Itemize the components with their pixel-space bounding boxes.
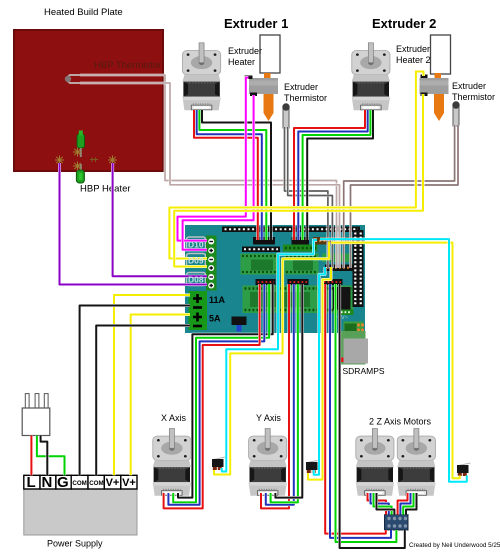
connector D08	[187, 273, 206, 286]
wire mains green	[37, 436, 65, 476]
extruder1 stepper motor	[183, 43, 221, 110]
svg-text:Extruder 1: Extruder 1	[224, 16, 288, 31]
svg-text:Created by Neil Underwood 5/25: Created by Neil Underwood 5/25/2011	[409, 542, 500, 549]
svg-text:Extruder: Extruder	[284, 82, 318, 92]
wire X motor red	[164, 284, 260, 508]
wire Y endstop yellow	[308, 267, 331, 480]
sdramps pin connector on board	[339, 310, 354, 316]
wire Y motor blue	[266, 284, 294, 505]
Y axis stepper motor	[249, 429, 287, 496]
wire Z1 loop green	[374, 493, 392, 515]
X driver header	[256, 279, 276, 285]
wire D08 purple B	[60, 163, 208, 285]
thermistor pin header	[325, 265, 353, 272]
wire X motor black	[178, 284, 273, 498]
svg-text:G: G	[57, 474, 69, 491]
svg-text:Power Supply: Power Supply	[47, 539, 103, 549]
wire Z1 loop blue	[371, 493, 389, 515]
svg-text:V+: V+	[122, 477, 136, 489]
wire Y motor green	[271, 284, 298, 502]
lower driver module Z	[322, 286, 354, 314]
svg-text:11A: 11A	[209, 295, 226, 305]
wire extruder1 thermistor B	[288, 127, 333, 268]
svg-text:Y Axis: Y Axis	[256, 413, 281, 423]
power input terminal block	[189, 291, 208, 330]
E0 motor header	[253, 237, 275, 245]
wire Y endstop cyan	[314, 267, 325, 475]
wire D10 magenta B	[183, 95, 254, 250]
svg-text:Extruder 2: Extruder 2	[372, 16, 436, 31]
wire Z1 loop black	[377, 493, 395, 515]
Z wire combiner block	[385, 515, 409, 531]
E1 motor header	[292, 237, 310, 245]
wire Z motor blue	[330, 284, 391, 538]
wire HBP thermistor B	[80, 83, 340, 268]
wire mains black	[41, 436, 48, 476]
PSU body	[24, 489, 137, 535]
wire D10 magenta A	[178, 78, 249, 241]
green terminal mid	[283, 245, 318, 252]
lower driver modules XY	[243, 286, 320, 314]
HBP heater component	[55, 131, 117, 184]
wire extruder2 motor blue	[298, 110, 367, 240]
wire PSU V+2 yellow	[131, 315, 190, 476]
wire extruder2 thermistor A	[344, 125, 455, 268]
svg-text:Thermistor: Thermistor	[284, 93, 327, 103]
endstop/aux header top right	[313, 237, 342, 245]
extruder1 hot end	[249, 73, 278, 121]
extruder2 thermistor	[452, 101, 459, 126]
stepper driver module E0	[241, 254, 279, 275]
extruder2 hot end	[420, 73, 449, 121]
wire X endstop cyan	[222, 240, 317, 472]
wire extruder2 motor black	[307, 110, 373, 240]
wire Z1 loop red	[368, 493, 387, 515]
sd red led	[340, 358, 344, 363]
reset button	[232, 317, 247, 326]
right pin header double column	[353, 230, 364, 307]
extruder1 heater cartridge	[260, 35, 280, 73]
extruder2 heater cartridge	[431, 35, 451, 74]
svg-text:Extruder: Extruder	[452, 81, 486, 91]
wire Z2 loop red	[398, 493, 408, 515]
SD card	[344, 339, 369, 364]
wire extruder1 motor green	[199, 110, 266, 240]
wire Z2 loop blue	[400, 493, 410, 515]
PSU terminal G	[56, 475, 71, 489]
wire D09 yellow B to heater2	[174, 94, 423, 267]
header row 2	[242, 247, 280, 253]
wire extruder2 thermistor B	[351, 125, 459, 268]
heated build plate	[14, 30, 163, 171]
svg-text:Thermistor: Thermistor	[452, 92, 495, 102]
svg-text:2 Z Axis Motors: 2 Z Axis Motors	[369, 417, 432, 427]
wire PSU COM1 black	[80, 306, 190, 476]
wire Y motor black	[275, 284, 302, 498]
PSU terminal COM1	[71, 475, 88, 489]
wire Z endstop cyan	[320, 239, 467, 482]
svg-text:Extruder: Extruder	[228, 46, 262, 56]
svg-text:D09: D09	[188, 256, 204, 266]
wire extruder1 motor black	[202, 110, 271, 240]
mains plug	[22, 394, 50, 436]
wire Z motor red	[325, 284, 386, 534]
PSU terminal N	[40, 475, 56, 489]
wire X endstop yellow	[214, 242, 329, 475]
PSU terminal COM2	[88, 475, 104, 489]
wire D08 purple A	[113, 163, 207, 276]
svg-text:Heater 2: Heater 2	[396, 55, 431, 65]
Y driver header	[288, 279, 309, 285]
wire PSU COM2 black	[96, 326, 190, 476]
Z axis stepper motor 1	[356, 429, 394, 496]
output terminal strip	[206, 236, 217, 291]
aux header far top right	[344, 237, 364, 245]
RAMPS board base	[185, 225, 365, 333]
aux green block right	[322, 254, 352, 263]
svg-text:N: N	[42, 474, 53, 491]
svg-text:X Axis: X Axis	[161, 413, 187, 423]
PSU terminal L	[24, 475, 40, 489]
wire Z2 loop black	[406, 493, 417, 515]
wire extruder2 motor red	[294, 110, 365, 240]
Z axis stepper motor 2	[397, 429, 435, 496]
svg-text:HBP Heater: HBP Heater	[80, 184, 131, 195]
wire D09 yellow A to heater2	[169, 72, 423, 259]
svg-text:L: L	[27, 474, 36, 491]
Y endstop	[306, 460, 320, 473]
svg-text:COM: COM	[72, 480, 86, 487]
svg-text:HBP Thermistor: HBP Thermistor	[94, 60, 161, 71]
svg-text:5A: 5A	[209, 314, 221, 324]
board top pin header	[222, 227, 360, 233]
svg-text:COM: COM	[89, 480, 103, 487]
svg-text:Heated Build Plate: Heated Build Plate	[44, 7, 123, 18]
wire extruder1 motor red	[194, 110, 258, 240]
svg-text:V+: V+	[106, 477, 120, 489]
Z driver header	[322, 279, 343, 285]
wire extruder1 motor blue	[197, 110, 262, 240]
connector D10	[187, 237, 206, 250]
wire Z motor green	[336, 284, 397, 542]
mosfet chip	[333, 287, 351, 310]
Z endstop	[457, 463, 471, 476]
HBP thermistor bead	[68, 75, 80, 83]
PSU terminal V+2	[121, 475, 137, 489]
extruder2 stepper motor	[352, 43, 390, 110]
svg-text:Heater: Heater	[228, 57, 255, 67]
wire X motor green	[173, 284, 269, 502]
wire X motor blue	[168, 284, 264, 505]
wire Z endstop yellow	[331, 243, 460, 479]
stepper driver module E1	[285, 254, 319, 275]
wire extruder2 motor green	[303, 110, 371, 240]
svg-text:D08: D08	[188, 275, 204, 285]
wire Z2 loop green	[403, 493, 413, 515]
sdramps top connector	[344, 322, 364, 334]
wire HBP thermistor A	[80, 75, 337, 268]
svg-text:D10: D10	[188, 240, 204, 250]
wire PSU V+1 yellow	[114, 295, 190, 475]
extruder1 thermistor	[282, 103, 289, 128]
connector D09	[187, 254, 206, 267]
SDRAMPS pcb	[340, 331, 366, 365]
svg-text:Extruder: Extruder	[396, 44, 430, 54]
svg-text:~/\/~: ~/\/~	[336, 315, 349, 321]
wire Z motor black	[340, 284, 405, 548]
PSU terminal V+1	[104, 475, 121, 489]
wire Y motor red	[261, 284, 289, 508]
X axis stepper motor	[153, 429, 191, 496]
svg-text:SDRAMPS: SDRAMPS	[343, 366, 385, 376]
wire extruder1 thermistor A	[285, 127, 328, 268]
X endstop	[212, 457, 226, 470]
wire mains red	[30, 436, 33, 476]
